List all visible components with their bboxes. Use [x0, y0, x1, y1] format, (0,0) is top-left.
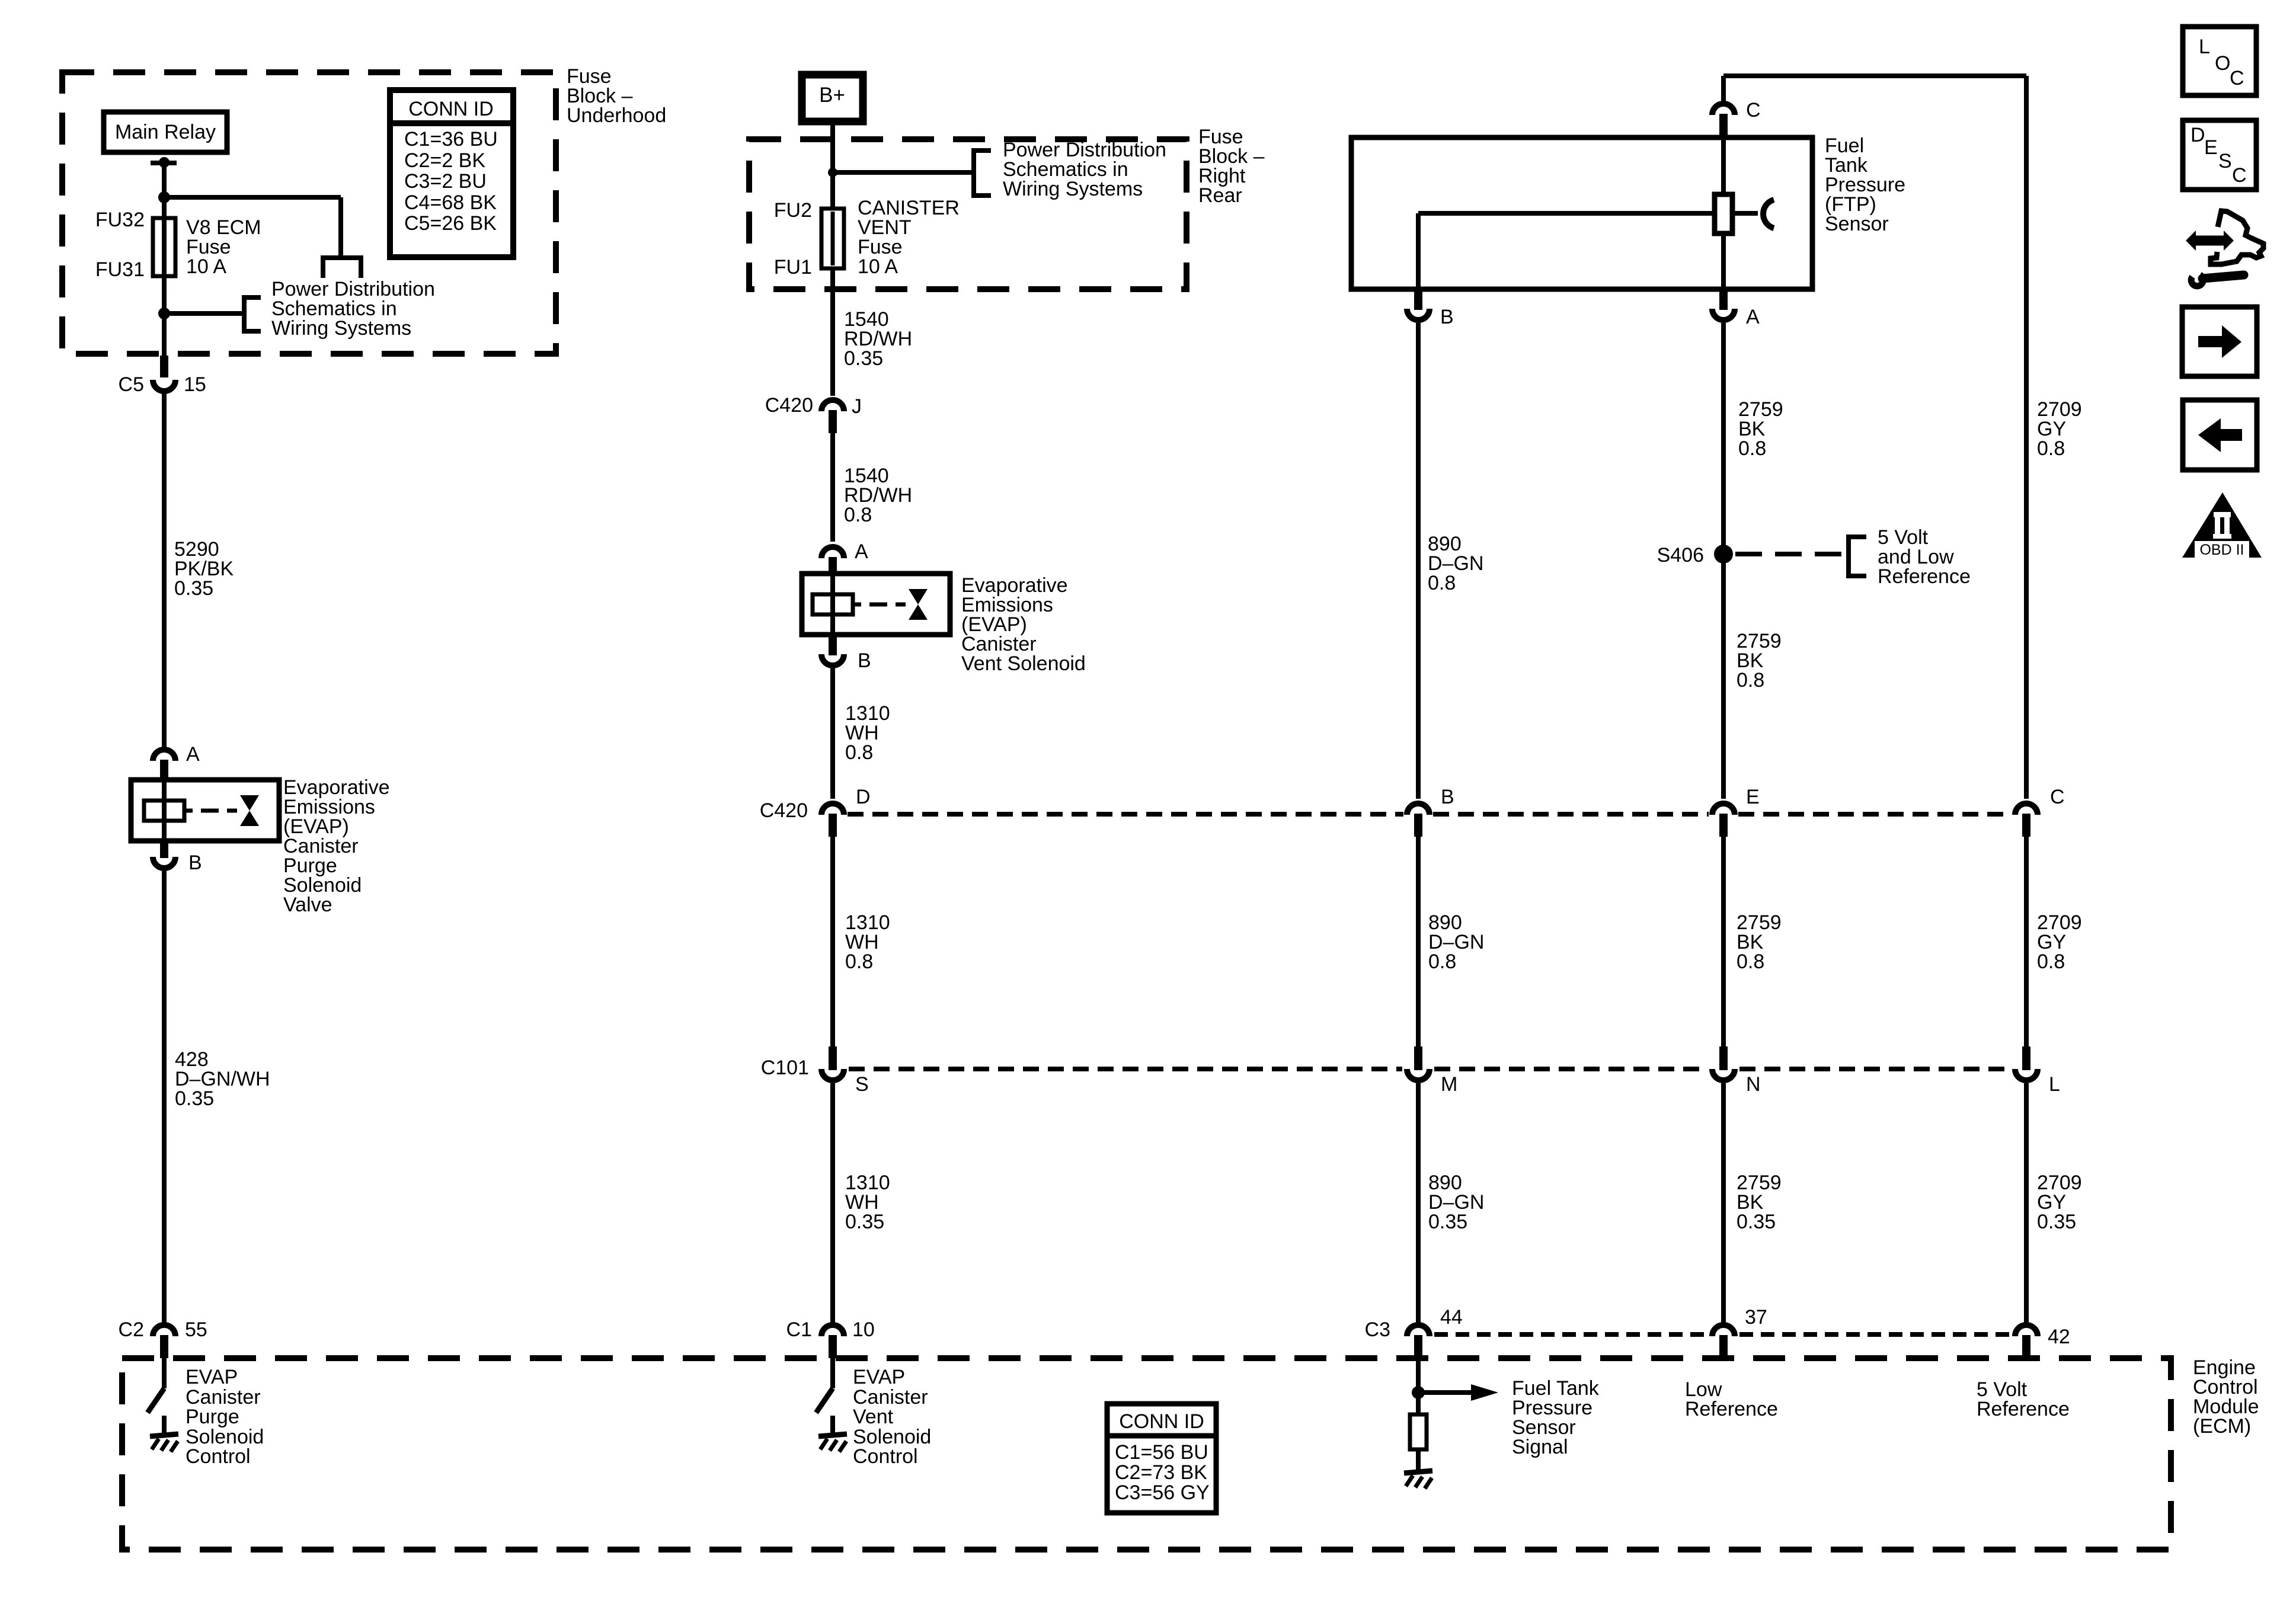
svg-text:Vent Solenoid: Vent Solenoid [961, 652, 1086, 675]
svg-text:E: E [2204, 136, 2218, 159]
svg-text:0.8: 0.8 [1737, 669, 1764, 692]
svg-text:EVAP: EVAP [186, 1366, 238, 1388]
svg-text:M: M [1441, 1073, 1457, 1096]
svg-text:L: L [2049, 1073, 2060, 1096]
svg-text:0.8: 0.8 [1737, 950, 1764, 973]
svg-text:Purge: Purge [186, 1406, 239, 1428]
svg-text:Main Relay: Main Relay [115, 121, 216, 143]
svg-text:C: C [1746, 99, 1761, 121]
svg-text:CONN ID: CONN ID [1119, 1410, 1204, 1433]
svg-text:C5: C5 [119, 373, 144, 396]
svg-text:0.8: 0.8 [844, 504, 872, 526]
svg-text:0.35: 0.35 [2037, 1211, 2076, 1233]
svg-text:0.8: 0.8 [2037, 437, 2065, 460]
svg-text:Rear: Rear [1198, 184, 1242, 207]
svg-text:O: O [2215, 52, 2230, 75]
svg-text:FU2: FU2 [774, 199, 812, 222]
svg-text:S406: S406 [1657, 544, 1704, 566]
svg-text:Wiring Systems: Wiring Systems [271, 317, 411, 340]
svg-text:C2=2 BK: C2=2 BK [404, 149, 485, 172]
svg-text:N: N [1746, 1073, 1761, 1096]
svg-text:C4=68 BK: C4=68 BK [404, 191, 497, 214]
svg-text:A: A [186, 743, 200, 766]
svg-text:D: D [2191, 124, 2205, 146]
svg-text:FU1: FU1 [774, 256, 812, 279]
svg-text:B: B [1440, 306, 1454, 328]
svg-text:0.35: 0.35 [1428, 1211, 1467, 1233]
svg-text:C: C [2050, 786, 2065, 808]
svg-text:(ECM): (ECM) [2193, 1415, 2251, 1438]
svg-text:C5=26 BK: C5=26 BK [404, 212, 497, 235]
svg-text:Reference: Reference [1685, 1398, 1778, 1420]
svg-text:55: 55 [185, 1318, 207, 1341]
svg-text:Reference: Reference [1977, 1398, 2070, 1420]
svg-text:EVAP: EVAP [853, 1366, 905, 1388]
svg-text:0.8: 0.8 [2037, 950, 2065, 973]
svg-text:OBD II: OBD II [2199, 542, 2244, 558]
svg-text:C3=2 BU: C3=2 BU [404, 170, 487, 193]
svg-text:Valve: Valve [283, 894, 332, 916]
svg-text:C101: C101 [761, 1057, 809, 1079]
svg-text:B: B [188, 852, 202, 874]
svg-text:C1: C1 [786, 1318, 812, 1341]
svg-text:0.35: 0.35 [844, 347, 883, 370]
svg-text:B: B [1441, 786, 1454, 808]
svg-text:FU31: FU31 [95, 258, 145, 281]
svg-text:15: 15 [184, 373, 206, 396]
svg-text:C420: C420 [765, 394, 813, 417]
svg-text:10: 10 [852, 1318, 875, 1341]
svg-text:Reference: Reference [1878, 565, 1971, 588]
svg-text:D: D [856, 786, 871, 808]
svg-text:FU32: FU32 [95, 209, 145, 231]
svg-text:0.8: 0.8 [845, 741, 873, 764]
svg-text:37: 37 [1745, 1306, 1767, 1329]
svg-text:C3: C3 [1365, 1318, 1390, 1341]
svg-text:C420: C420 [760, 799, 808, 822]
svg-text:S: S [2218, 150, 2232, 172]
svg-text:C1=36 BU: C1=36 BU [404, 128, 498, 151]
svg-text:B+: B+ [819, 84, 845, 107]
svg-text:C: C [2232, 164, 2247, 187]
svg-text:C2: C2 [119, 1318, 144, 1341]
svg-text:0.35: 0.35 [845, 1211, 884, 1233]
svg-text:B: B [858, 649, 871, 672]
svg-text:C1=56 BU: C1=56 BU [1115, 1441, 1208, 1464]
svg-text:Control: Control [853, 1445, 918, 1468]
svg-text:A: A [855, 540, 868, 563]
svg-text:Sensor: Sensor [1825, 213, 1889, 235]
svg-text:S: S [855, 1073, 869, 1096]
svg-text:44: 44 [1440, 1306, 1463, 1329]
svg-text:10 A: 10 A [858, 255, 898, 278]
svg-text:0.8: 0.8 [1738, 437, 1766, 460]
svg-text:Vent: Vent [853, 1406, 894, 1428]
svg-text:L: L [2199, 36, 2210, 58]
svg-text:E: E [1746, 786, 1760, 808]
svg-text:C2=73 BK: C2=73 BK [1115, 1461, 1207, 1484]
svg-text:42: 42 [2048, 1326, 2070, 1348]
svg-text:0.8: 0.8 [1428, 572, 1456, 594]
svg-text:0.35: 0.35 [174, 577, 213, 600]
svg-text:Control: Control [186, 1445, 251, 1468]
svg-text:Wiring Systems: Wiring Systems [1003, 178, 1143, 200]
svg-text:Underhood: Underhood [567, 104, 666, 127]
svg-text:J: J [852, 395, 862, 418]
svg-text:0.8: 0.8 [1428, 950, 1456, 973]
svg-text:A: A [1746, 306, 1760, 328]
svg-text:CONN ID: CONN ID [408, 98, 494, 120]
svg-text:0.35: 0.35 [1737, 1211, 1776, 1233]
svg-text:10 A: 10 A [186, 255, 226, 278]
svg-text:C: C [2230, 67, 2244, 89]
svg-text:Signal: Signal [1512, 1436, 1568, 1458]
svg-text:0.8: 0.8 [845, 950, 873, 973]
svg-text:C3=56 GY: C3=56 GY [1115, 1481, 1210, 1504]
svg-text:0.35: 0.35 [175, 1087, 214, 1110]
